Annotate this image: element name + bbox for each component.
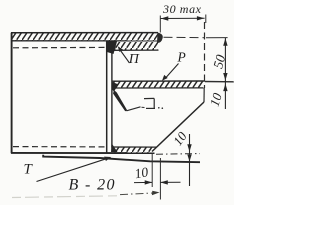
30max right extension tick xyxy=(205,15,207,24)
bracket right edge (dashed extension above, solid below) xyxy=(204,22,206,88)
dash-dot leader with arrow at bottom xyxy=(120,193,155,195)
plate T lower line xyxy=(43,155,200,162)
box bottom edge xyxy=(11,152,155,154)
svg-text:П: П xyxy=(128,52,140,67)
bottom flange (hatched section) xyxy=(112,147,156,153)
bracket diagonal cut edge xyxy=(152,102,204,152)
svg-text:Т: Т xyxy=(24,162,34,178)
right top reference line xyxy=(206,37,228,39)
hidden (dashed) bottom flange line left of wall xyxy=(13,146,106,148)
svg-text:30 mах: 30 mах xyxy=(162,2,202,16)
label P leader arrow xyxy=(166,64,179,78)
svg-text:10: 10 xyxy=(207,91,225,108)
doubler strip right of wall (hatched) xyxy=(110,42,159,50)
top plate end weld cap xyxy=(157,33,163,44)
rib plate P (hatched section) xyxy=(112,81,204,88)
svg-text:Р: Р xyxy=(177,50,186,65)
label T leader arrow xyxy=(37,159,107,182)
weld bead at wall / top plate xyxy=(107,41,117,54)
rib top edge extension to right xyxy=(204,80,234,82)
right vertical dimension line 50 / 10 xyxy=(224,38,226,109)
web wall (two vertical lines) xyxy=(106,41,108,153)
right mid reference line y=81.5 xyxy=(205,81,234,83)
weld beads at wall / rib xyxy=(113,82,119,92)
svg-text:В - 20: В - 20 xyxy=(69,177,115,194)
svg-text:10: 10 xyxy=(133,164,149,181)
dimension 30max: dimension line with arrows xyxy=(161,17,205,19)
hidden (dashed) line under top flange xyxy=(13,46,106,48)
lower right vertical dimension line xyxy=(189,134,191,186)
left cut edge xyxy=(11,33,13,153)
bottom dimension 10: dimension line with arrows xyxy=(134,181,152,183)
faint scan artifact line xyxy=(12,196,118,198)
bottom edge dash-dot extension right xyxy=(156,153,200,156)
weld bead at wall / bottom flange xyxy=(111,143,118,152)
reference line from plate end to right xyxy=(164,36,205,38)
label П leader arrow xyxy=(121,51,130,64)
bottom dimension 10: extension lines xyxy=(151,154,153,188)
dimension 30max: extension line xyxy=(159,16,161,33)
top flange plate (hatched section) xyxy=(11,33,158,41)
weld symbol bracket near rib xyxy=(144,98,155,108)
